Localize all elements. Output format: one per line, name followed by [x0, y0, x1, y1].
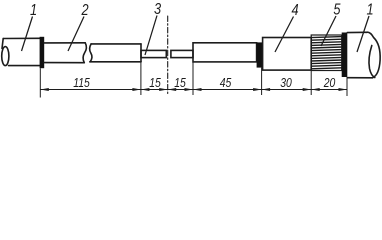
arrow left at 193: [193, 88, 202, 91]
dimension line 20 span: [311, 89, 347, 91]
wire winding section 5: outline: [311, 35, 342, 71]
arrow left at 261.5: [262, 88, 271, 91]
braid section 2 piece A: top edge: [44, 42, 85, 44]
dimension line 115 span: [40, 89, 141, 91]
braid section 2 piece A: bottom edge: [44, 62, 84, 64]
inner tube section 3 right piece: [171, 50, 193, 57]
svg-text:15: 15: [149, 76, 161, 90]
svg-text:115: 115: [73, 76, 90, 90]
extension line at x=40: [39, 68, 41, 97]
arrow right at 167.7: [159, 88, 168, 91]
cable jacket right section 1: end-cap right curve: [367, 32, 381, 78]
black band B3: [342, 33, 348, 78]
arrow left at 167.7: [168, 88, 177, 91]
center dashed divider line: [167, 16, 169, 94]
cable jacket left section 1: bottom edge: [9, 65, 40, 67]
braid section 2 piece A: break curve: [83, 43, 86, 63]
black band B1 at jacket cut: [40, 37, 45, 68]
cable jacket left section 1: left edge slant: [2, 39, 3, 49]
braid section 2 piece B: top edge: [91, 43, 141, 45]
dimension line 30 span: [262, 89, 312, 91]
cable jacket right section 1: top edge: [347, 31, 366, 33]
braid section 2 piece B: right face edge: [140, 44, 142, 62]
section 4 sleeve rectangle: [193, 43, 257, 62]
svg-text:1: 1: [30, 2, 37, 20]
cable jacket right section 1: end-cap inner arc: [369, 46, 375, 78]
arrow left at 311: [311, 88, 320, 91]
inner tube section 3 left piece: [141, 50, 166, 57]
arrow left at 40: [40, 88, 49, 91]
arrow left at 141: [141, 88, 150, 91]
extension line at x=141: [140, 62, 142, 95]
leader line to label 3: [145, 16, 157, 56]
dimension line 45 span: [193, 89, 262, 91]
extension line at x=311: [310, 71, 312, 96]
leader line to label 2: [68, 17, 84, 52]
arrow right at 347: [339, 88, 348, 91]
svg-text:5: 5: [333, 1, 341, 19]
arrow right at 261.5: [253, 88, 262, 91]
leader line to label 4: [275, 17, 294, 53]
svg-text:45: 45: [220, 76, 232, 90]
extension line at x=347: [346, 77, 348, 96]
cable jacket right section 1: bottom edge: [347, 77, 372, 79]
black band B2: [257, 42, 263, 67]
svg-text:1: 1: [366, 1, 373, 19]
leader line to label 1 left: [22, 17, 33, 52]
dimension line 15-15 span: [141, 89, 193, 91]
cable jacket left section 1: end-cap ellipse: [2, 47, 9, 66]
leader line to label 5: [321, 16, 336, 46]
leader line to label 1 right: [357, 16, 369, 52]
svg-text:2: 2: [81, 2, 89, 20]
extension line at x=261.5: [261, 68, 263, 95]
braid section 2 piece B: break curve: [90, 44, 92, 62]
braid section 2 piece B: bottom edge: [90, 61, 141, 63]
extension line at x=193: [192, 62, 194, 95]
svg-text:20: 20: [323, 76, 336, 90]
svg-text:30: 30: [280, 76, 292, 90]
arrow right at 311: [303, 88, 312, 91]
arrow right at 193: [185, 88, 194, 91]
wire winding section 5: hatch lines: [311, 37, 342, 69]
svg-text:3: 3: [154, 1, 161, 19]
cable jacket left section 1: top edge: [3, 37, 39, 39]
tall section rectangle before winding: [263, 38, 312, 71]
svg-text:15: 15: [174, 76, 186, 90]
arrow right at 141: [132, 88, 141, 91]
svg-text:4: 4: [291, 2, 298, 20]
